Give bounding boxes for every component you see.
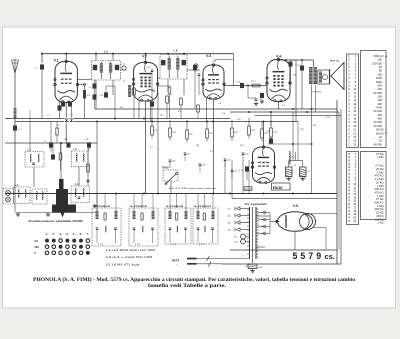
svg-text:C2: C2	[294, 165, 296, 167]
svg-text:L.5: L.5	[104, 50, 108, 54]
svg-text:C 4: C 4	[47, 115, 50, 117]
svg-text:10 ·: 10 ·	[379, 135, 384, 139]
svg-text:S 12.4: S 12.4	[171, 244, 176, 246]
svg-text:40 000 ·: 40 000 ·	[374, 142, 384, 146]
svg-text:C25: C25	[234, 171, 237, 173]
svg-text:R10: R10	[172, 132, 175, 134]
svg-text:100 ·: 100 ·	[377, 58, 383, 62]
svg-text:C: C	[348, 73, 350, 76]
svg-text:C: C	[348, 59, 350, 62]
svg-text:4.: 4.	[66, 232, 68, 236]
svg-text:C: C	[348, 103, 350, 106]
svg-text:V.3: V.3	[206, 54, 211, 58]
svg-text:V.1: V.1	[54, 59, 59, 63]
svg-text:AP M 122: AP M 122	[330, 60, 340, 63]
svg-text:R15: R15	[264, 133, 267, 135]
svg-text:C12: C12	[160, 115, 163, 117]
svg-text:BV 4,5 140 lung alim videoat: BV 4,5 140 lung alim videoat	[169, 187, 217, 190]
svg-text:100 ·: 100 ·	[377, 94, 383, 98]
svg-text:200 ·: 200 ·	[377, 87, 383, 91]
svg-text:1 MΩ: 1 MΩ	[377, 155, 384, 159]
svg-text:C 16: C 16	[236, 82, 240, 84]
svg-text:5: 5	[293, 251, 298, 261]
svg-text:C: C	[348, 132, 350, 135]
svg-text:10 000 ·: 10 000 ·	[374, 120, 384, 124]
svg-text:S 5790/12: S 5790/12	[194, 206, 212, 208]
svg-text:C: C	[348, 114, 350, 117]
svg-text:C21: C21	[202, 165, 205, 167]
svg-text:80 ·: 80 ·	[379, 69, 384, 73]
svg-text:C20: C20	[300, 129, 303, 131]
svg-text:C11: C11	[147, 67, 150, 69]
svg-text:200 ·: 200 ·	[377, 98, 383, 102]
svg-text:240 ·: 240 ·	[377, 83, 383, 87]
svg-text:FONO: FONO	[162, 168, 169, 170]
svg-text:200 ·: 200 ·	[377, 72, 383, 76]
svg-text:C: C	[348, 110, 350, 113]
svg-text:C23: C23	[245, 154, 248, 156]
svg-text:C19: C19	[240, 145, 243, 147]
svg-text:C: C	[348, 121, 350, 124]
svg-text:1 W.: 1 W.	[273, 132, 277, 134]
svg-text:F.: F.	[35, 251, 37, 255]
svg-text:50 ·: 50 ·	[379, 65, 384, 69]
svg-text:C26: C26	[326, 117, 329, 119]
svg-text:2000 ·: 2000 ·	[376, 76, 384, 80]
svg-text:6.: 6.	[80, 232, 82, 236]
svg-text:9: 9	[316, 251, 321, 261]
svg-text:C15: C15	[237, 119, 240, 121]
svg-text:C: C	[348, 81, 350, 84]
svg-text:R12: R12	[209, 133, 212, 135]
svg-text:C10: C10	[100, 95, 103, 97]
svg-text:160: 160	[228, 223, 231, 225]
svg-text:C: C	[348, 129, 350, 132]
svg-text:100 000 ·: 100 000 ·	[372, 61, 383, 65]
svg-text:V.5.: V.5.	[293, 204, 299, 208]
svg-text:R11: R11	[196, 145, 199, 147]
svg-text:5000 pF: 5000 pF	[374, 54, 384, 58]
svg-text:2000 ·: 2000 ·	[376, 80, 384, 84]
svg-text:4,7: 4,7	[282, 105, 285, 107]
svg-text:C: C	[348, 99, 350, 102]
svg-text:400 ·: 400 ·	[377, 113, 383, 117]
svg-text:C18: C18	[172, 161, 175, 163]
svg-text:C 5: C 5	[70, 115, 73, 117]
svg-text:Condensatore variabile OC96: Condensatore variabile OC96	[29, 219, 84, 223]
svg-text:62 500 ·: 62 500 ·	[374, 91, 384, 95]
svg-text:C 7: C 7	[44, 141, 47, 143]
svg-text:C19: C19	[187, 154, 190, 156]
svg-text:R13: R13	[234, 132, 237, 134]
svg-text:50+50: 50+50	[376, 131, 384, 135]
svg-text:C 44.: C 44.	[258, 267, 263, 269]
svg-text:220: 220	[228, 230, 231, 232]
svg-text:C: C	[348, 66, 350, 69]
svg-text:T 0,6: T 0,6	[234, 242, 238, 244]
svg-text:C: C	[348, 136, 350, 139]
svg-text:R 8: R 8	[222, 113, 225, 115]
svg-text:S 11: S 11	[234, 237, 238, 239]
svg-text:R 9: R 9	[154, 130, 157, 132]
svg-text:5.: 5.	[73, 232, 75, 236]
svg-text:L5 L6 M1 471 kc/g: L5 L6 M1 471 kc/g	[106, 265, 140, 267]
svg-text:TZ 790/078: TZ 790/078	[311, 92, 322, 94]
svg-text:C: C	[348, 84, 350, 87]
svg-text:25+50: 25+50	[376, 128, 384, 132]
svg-text:cs.: cs.	[325, 252, 335, 261]
svg-text:1.: 1.	[46, 232, 48, 236]
svg-text:0,1: 0,1	[210, 151, 213, 153]
svg-text:C13: C13	[194, 71, 197, 73]
svg-text:S 12.4: S 12.4	[98, 244, 103, 246]
svg-text:C: C	[348, 62, 350, 65]
svg-text:4,7: 4,7	[150, 147, 153, 149]
svg-text:CC: CC	[35, 239, 39, 243]
svg-text:C: C	[348, 107, 350, 110]
svg-text:C: C	[348, 77, 350, 80]
svg-text:C: C	[348, 140, 350, 143]
svg-text:7: 7	[308, 251, 313, 261]
svg-text:C22: C22	[227, 160, 230, 162]
svg-text:R13: R13	[251, 130, 254, 132]
svg-text:S 12.4: S 12.4	[135, 244, 140, 246]
svg-text:C 3: C 3	[89, 87, 92, 89]
svg-text:lamella vedi Tabelle a parte.: lamella vedi Tabelle a parte.	[148, 284, 226, 289]
svg-text:C: C	[348, 88, 350, 91]
svg-text:L2+L4 + oscil OC OM: L2+L4 + oscil OC OM	[106, 257, 152, 259]
svg-text:C: C	[348, 70, 350, 73]
svg-text:C9: C9	[123, 81, 125, 83]
svg-text:25 000 ·: 25 000 ·	[374, 109, 384, 113]
svg-text:R12: R12	[313, 125, 316, 127]
svg-text:140: 140	[228, 216, 231, 218]
svg-text:C: C	[348, 118, 350, 121]
svg-text:R 2: R 2	[57, 125, 60, 127]
svg-text:C 8: C 8	[218, 103, 221, 105]
svg-text:50 000 ·: 50 000 ·	[374, 124, 384, 128]
svg-text:C: C	[348, 125, 350, 128]
svg-text:C2.: C2.	[308, 171, 311, 173]
svg-text:S 5790/14: S 5790/14	[166, 205, 184, 208]
svg-text:3.: 3.	[59, 232, 61, 236]
svg-text:5: 5	[300, 251, 305, 261]
svg-text:C: C	[348, 92, 350, 95]
svg-text:EM.80.: EM.80.	[273, 186, 284, 190]
svg-text:R 4: R 4	[178, 111, 181, 113]
svg-text:7000 ·: 7000 ·	[376, 106, 384, 110]
svg-text:C: C	[348, 143, 350, 146]
svg-text:R 7.2: R 7.2	[251, 81, 256, 83]
svg-text:S 5790/16: S 5790/16	[130, 206, 148, 208]
svg-text:V.4.: V.4.	[276, 55, 282, 59]
svg-text:S 12.4: S 12.4	[199, 244, 204, 246]
svg-text:1 KΩ: 1 KΩ	[377, 221, 383, 225]
svg-text:R 16: R 16	[239, 170, 243, 172]
svg-text:C22: C22	[266, 131, 269, 133]
svg-text:R11: R11	[189, 134, 192, 136]
svg-text:C 14: C 14	[121, 64, 125, 66]
svg-text:R 3: R 3	[120, 107, 123, 109]
svg-text:7.: 7.	[86, 232, 88, 236]
svg-text:TR 1429/IND: TR 1429/IND	[244, 203, 268, 206]
svg-text:C: C	[348, 55, 350, 58]
svg-text:L1+L2 Rob sinto CC OM: L1+L2 Rob sinto CC OM	[106, 249, 155, 252]
svg-text:V.2: V.2	[142, 55, 147, 59]
svg-text:25 ·: 25 ·	[379, 139, 384, 143]
svg-text:S 5790/15: S 5790/15	[93, 206, 111, 208]
svg-text:L.6: L.6	[174, 48, 178, 52]
svg-text:OM: OM	[35, 245, 39, 249]
svg-text:2 W: 2 W	[87, 95, 90, 97]
svg-text:C: C	[348, 95, 350, 98]
svg-text:2.: 2.	[52, 232, 54, 236]
svg-text:450 ·: 450 ·	[377, 117, 383, 121]
svg-text:PHONOLA (S. A. FIMI) - Mod. 55: PHONOLA (S. A. FIMI) - Mod. 5579 cs. App…	[33, 278, 356, 283]
svg-text:100 ·: 100 ·	[377, 102, 383, 106]
svg-text:B+7: B+7	[292, 157, 295, 159]
svg-text:110: 110	[228, 209, 231, 211]
svg-text:R: R	[348, 220, 350, 223]
